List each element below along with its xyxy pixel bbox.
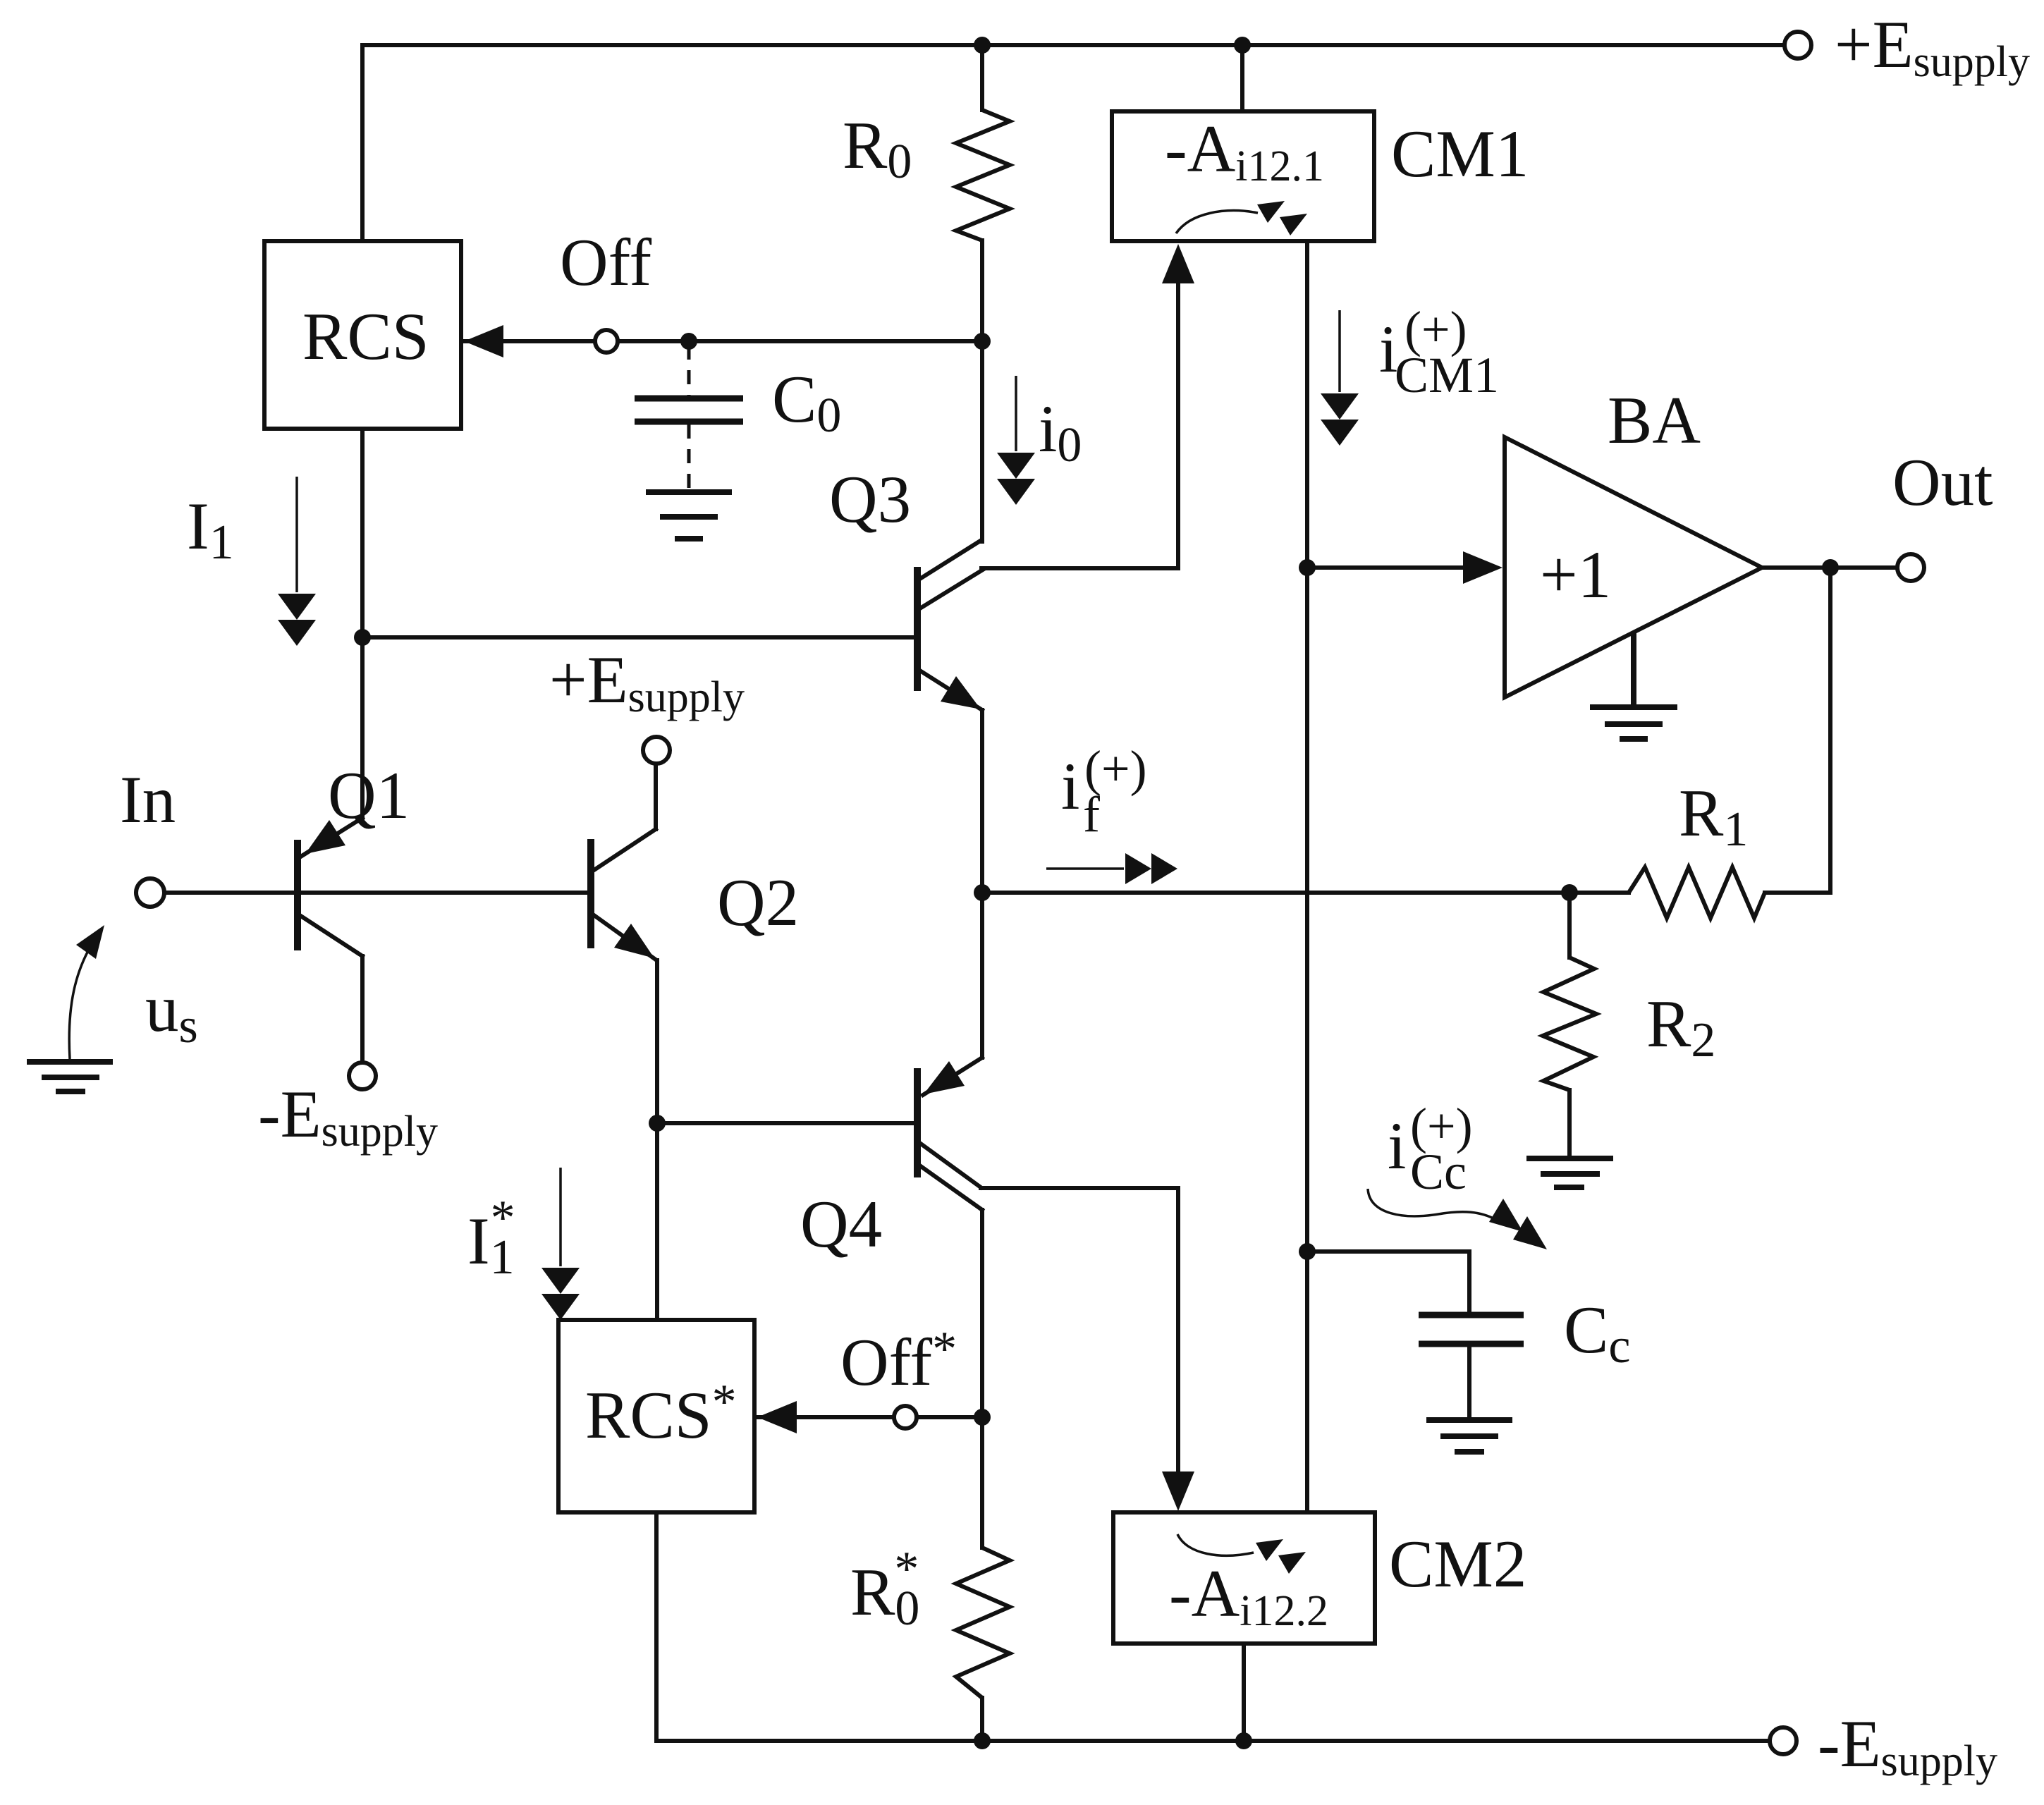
- arrowhead Q3 emitter: [941, 676, 981, 709]
- current arrow I1star: [541, 1168, 580, 1320]
- block RCSstar: [558, 1320, 754, 1512]
- wire BA output: [1762, 565, 1896, 570]
- block CM1: [1112, 111, 1374, 241]
- svg-text:CM1: CM1: [1391, 116, 1529, 191]
- svg-text:I1*: I1*: [467, 1191, 515, 1285]
- node dot R1 R2: [1561, 884, 1578, 901]
- wire R0star bottom stem: [980, 1698, 984, 1741]
- wire Q4 collector lower diagonal: [919, 1165, 982, 1210]
- op-amp BA buffer triangle: [1505, 437, 1762, 697]
- current arrow iCc squiggle: [1368, 1189, 1547, 1249]
- node dot Off C0: [680, 333, 697, 350]
- svg-text:CM1: CM1: [1395, 347, 1499, 403]
- arrowhead Q4 emitter: [924, 1061, 965, 1094]
- wire Q3 emitter diagonal: [919, 670, 982, 710]
- resistor R0star: [956, 1548, 1010, 1698]
- wire Off line RCS to R0 column: [464, 339, 980, 343]
- svg-text:i: i: [1061, 749, 1079, 824]
- transistor Q3 base bar: [914, 567, 921, 691]
- arrowhead Q1 emitter: [305, 820, 345, 854]
- resistor R2: [1543, 957, 1596, 1090]
- block CM2: [1113, 1512, 1375, 1644]
- arrowhead into RCS: [464, 325, 503, 357]
- svg-text:CM2: CM2: [1389, 1526, 1526, 1601]
- wire CM1 output vertical to CM2: [1305, 241, 1309, 1512]
- svg-text:Q4: Q4: [800, 1187, 882, 1261]
- svg-text:Cc: Cc: [1410, 1144, 1467, 1200]
- terminal -Esupply bottom right: [1770, 1727, 1797, 1754]
- node dot Cc tap: [1299, 1243, 1316, 1260]
- wire input and feedback line: [164, 891, 1830, 895]
- terminal Offstar: [894, 1406, 917, 1428]
- wire CM1 top stub: [1240, 45, 1244, 111]
- ground under u_s: [27, 1062, 113, 1091]
- current arrow iCM1: [1321, 310, 1359, 446]
- ground under C0: [646, 492, 732, 539]
- transistor Q4 base bar: [914, 1068, 921, 1177]
- ground under BA: [1590, 632, 1677, 739]
- resistor R0: [956, 110, 1010, 240]
- wire left drop from rail to RCS: [360, 45, 365, 241]
- capacitor C0 dashed stems: [687, 345, 691, 489]
- wire CM2 bottom stub: [1242, 1644, 1246, 1741]
- arrowhead into BA: [1463, 551, 1503, 584]
- node dot rail R0star: [974, 1732, 991, 1749]
- transistor Q1 base bar: [294, 840, 301, 950]
- svg-text:Q3: Q3: [829, 462, 911, 537]
- wire RCS bottom down to Q1 emitter corner: [360, 429, 365, 819]
- source arrow u_s: [69, 925, 104, 1059]
- wire node B to Q4 base: [657, 1121, 914, 1125]
- wire Cc tap: [1307, 1252, 1469, 1315]
- node dot rail CM1: [1234, 37, 1251, 54]
- node dot B Q2 emitter: [649, 1115, 666, 1132]
- arrowhead into RCSstar: [757, 1401, 797, 1433]
- svg-text:BA: BA: [1608, 383, 1701, 458]
- wire CM1 input vertical: [1176, 279, 1180, 568]
- wire Q3 collector upper diagonal: [919, 540, 981, 580]
- wire Q1 collector diagonal and stem: [300, 915, 362, 1062]
- node dot rail R0: [974, 37, 991, 54]
- svg-text:Out: Out: [1892, 445, 1993, 520]
- terminal Out: [1897, 554, 1924, 581]
- resistor R1: [1629, 867, 1765, 918]
- wire Q1 emitter diagonal: [302, 818, 362, 856]
- node dot emitter feedback: [974, 884, 991, 901]
- wire RCSstar bottom stem: [654, 1512, 659, 1741]
- svg-text:i: i: [1388, 1108, 1406, 1183]
- svg-text:f: f: [1083, 786, 1100, 843]
- wire bottom supply rail: [656, 1739, 1768, 1743]
- wire Out vertical: [1828, 568, 1832, 893]
- wire Q2 emitter diagonal: [593, 914, 656, 960]
- ground under R2: [1526, 1158, 1613, 1187]
- wire common emitter vertical upper: [980, 710, 984, 893]
- svg-text:Off: Off: [560, 225, 652, 300]
- transistor Q2 base bar: [587, 839, 594, 948]
- current arrow I1: [278, 477, 316, 646]
- capacitor C0: [635, 398, 743, 422]
- current arrow i0: [997, 376, 1035, 505]
- node dot A left column: [354, 629, 371, 646]
- capacitor Cc: [1419, 1315, 1524, 1344]
- node dot Out: [1822, 559, 1839, 576]
- curved gain arrow in CM1: [1176, 201, 1307, 235]
- wire Q3 collector lower diagonal to CM1: [919, 568, 1178, 609]
- wire Q2 collector diagonal and stem: [593, 764, 656, 871]
- curved gain arrow in CM2: [1177, 1534, 1306, 1574]
- node dot rail CM2: [1235, 1732, 1252, 1749]
- svg-text:RCS: RCS: [302, 299, 429, 374]
- current arrow if: [1046, 853, 1177, 884]
- wire BA input: [1307, 565, 1467, 570]
- node dot BA input tap: [1299, 559, 1316, 576]
- node dot Offstar R0star: [974, 1409, 991, 1426]
- wire Q4 collector upper diagonal to CM2: [919, 1142, 1178, 1188]
- node dot Off R0: [974, 333, 991, 350]
- svg-text:Q1: Q1: [328, 758, 410, 833]
- arrowhead Q2 emitter: [614, 924, 654, 958]
- wire node A to Q3 base: [362, 635, 914, 640]
- terminal -Esupply at Q1 collector: [349, 1063, 376, 1089]
- wire Q4 emitter diagonal: [923, 1058, 982, 1095]
- svg-text:+1: +1: [1540, 537, 1611, 612]
- wire R0 top stem: [980, 45, 984, 110]
- wire Q2 emitter vertical to RCSstar: [655, 960, 659, 1320]
- arrowhead into CM1: [1162, 244, 1194, 283]
- wire Offstar line: [757, 1415, 980, 1419]
- svg-text:In: In: [120, 762, 176, 837]
- ground under Cc: [1426, 1420, 1512, 1452]
- svg-text:Q2: Q2: [717, 865, 799, 940]
- wire R0 bottom stem to Q3 collector: [980, 240, 984, 541]
- arrowhead into CM2: [1162, 1471, 1194, 1511]
- svg-text:R0*: R0*: [850, 1542, 919, 1636]
- terminal +Esupply at Q2 collector: [643, 737, 670, 764]
- terminal Off: [595, 330, 618, 353]
- wire R2 stems: [1567, 893, 1572, 1157]
- wire common emitter vertical lower: [980, 893, 984, 1058]
- wire top supply rail: [362, 43, 1783, 47]
- block RCS: [264, 241, 461, 429]
- terminal In: [136, 879, 164, 907]
- wire Cc lower stem: [1467, 1344, 1471, 1419]
- terminal +Esupply top right: [1785, 32, 1811, 59]
- wire CM2 input vertical: [1176, 1188, 1180, 1475]
- wire Q4 column down to R0star: [980, 1210, 984, 1548]
